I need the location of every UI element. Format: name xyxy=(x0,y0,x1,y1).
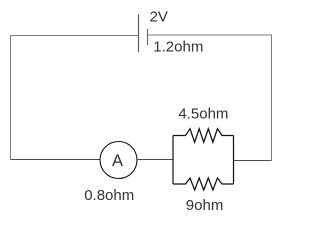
svg-text:4.5ohm: 4.5ohm xyxy=(178,106,228,123)
svg-text:0.8ohm: 0.8ohm xyxy=(84,187,134,204)
svg-text:2V: 2V xyxy=(150,9,168,26)
svg-text:A: A xyxy=(112,152,123,170)
svg-text:1.2ohm: 1.2ohm xyxy=(153,39,203,56)
svg-text:9ohm: 9ohm xyxy=(186,197,224,214)
